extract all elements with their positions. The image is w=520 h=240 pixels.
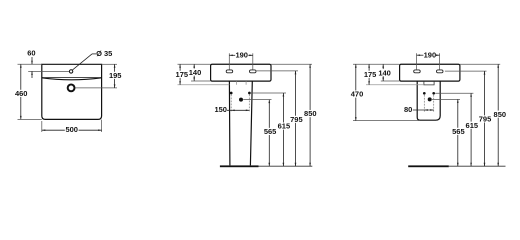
dimension 850 (middle) — [304, 64, 317, 166]
basin body front elevation — [211, 64, 271, 81]
svg-text:60: 60 — [27, 49, 35, 58]
extension line drain level right (middle) — [243, 99, 271, 101]
floor line thin (right view) — [449, 165, 506, 167]
extension line basin top right (middle) — [271, 63, 312, 65]
svg-text:615: 615 — [466, 121, 479, 130]
svg-text:470: 470 — [351, 90, 364, 99]
dimension 190 (middle) — [229, 50, 253, 59]
hidden trap outline — [236, 81, 246, 84]
svg-text:Ø 35: Ø 35 — [96, 49, 112, 58]
fixing hole right — [248, 92, 251, 95]
extension line basin top left (right view) — [353, 63, 400, 65]
tap hole left (elevation) — [226, 70, 233, 73]
fixing hole right (right view) — [432, 92, 435, 95]
dimension 615 (right) — [466, 93, 479, 166]
extension line 175 level (middle) — [178, 84, 230, 86]
svg-text:150: 150 — [214, 105, 227, 114]
extension line 175 level (right view) — [366, 84, 424, 86]
pedestal — [229, 81, 252, 165]
extension line tap level right (middle) — [256, 70, 299, 72]
fixing hole left — [230, 92, 233, 95]
extension line drain level right (right view) — [432, 98, 460, 100]
svg-text:500: 500 — [65, 125, 78, 134]
dimension 175 (middle) — [176, 64, 189, 84]
basin front rim curve — [42, 78, 102, 80]
dimension 80 — [404, 105, 434, 114]
extension line basin top right (right view) — [460, 63, 500, 65]
drain hole (elevation) — [239, 98, 243, 102]
svg-text:80: 80 — [404, 105, 412, 114]
semi-pedestal — [417, 81, 440, 120]
dimension 150 — [214, 105, 249, 114]
floor bar (right view) — [408, 165, 449, 167]
dimension label Ø 35 with leader — [72, 49, 112, 70]
extension line 190 left — [228, 53, 230, 69]
svg-text:565: 565 — [264, 127, 277, 136]
fixing hole left (right view) — [423, 92, 426, 95]
extension line fixing hole level right (middle) — [251, 92, 286, 94]
dimension 175 (right) — [364, 64, 377, 85]
svg-text:795: 795 — [479, 115, 492, 124]
dimension 195 — [109, 64, 122, 88]
extension line basin top right — [102, 63, 117, 65]
dimension 615 (middle) — [278, 93, 291, 166]
tap hole left (right view) — [414, 70, 421, 73]
svg-text:175: 175 — [176, 70, 189, 79]
dimension 470 — [351, 64, 364, 120]
svg-text:460: 460 — [15, 89, 28, 98]
svg-text:190: 190 — [424, 50, 437, 59]
svg-text:140: 140 — [378, 68, 391, 77]
extension line 190 right — [252, 53, 254, 69]
dimension 795 (middle) — [290, 71, 303, 166]
extension line 190 right (right view) — [439, 53, 441, 70]
basin outline plan view — [42, 64, 102, 119]
extension line basin bottom-right corner down — [101, 120, 103, 132]
dimension 140 (middle) — [189, 64, 202, 81]
dimension 60 — [27, 49, 35, 78]
svg-text:195: 195 — [109, 71, 122, 80]
tap hole right (elevation) — [250, 70, 257, 73]
dimension 565 (middle) — [264, 100, 277, 167]
dimension 850 (right) — [494, 64, 507, 166]
svg-text:565: 565 — [452, 127, 465, 136]
extension line basin bottom left (middle) — [191, 80, 211, 82]
drain hole — [68, 85, 75, 92]
extension line basin top left (middle) — [178, 63, 211, 65]
tap hole right (right view) — [437, 70, 444, 73]
extension line semiped bottom (right view) — [353, 120, 419, 122]
drain hole (right view) — [428, 97, 432, 101]
dimension 500 — [42, 125, 102, 134]
svg-text:795: 795 — [290, 115, 303, 124]
dashed extension from fixing holes (middle) — [231, 95, 249, 113]
extension line tap hole level — [28, 70, 69, 72]
dimension 140 (right) — [378, 64, 391, 81]
floor bar — [220, 165, 259, 167]
dimension 565 (right) — [452, 99, 465, 166]
basin body (right view) — [400, 64, 460, 81]
extension line basin bottom left — [18, 118, 42, 120]
extension line drain level — [75, 87, 117, 89]
svg-text:850: 850 — [494, 110, 507, 119]
extension line basin top left — [18, 63, 42, 65]
extension line basin bottom-left corner down — [41, 121, 43, 132]
extension line 190 left (right view) — [416, 53, 418, 70]
dimension 460 — [15, 64, 28, 119]
tap hole — [69, 70, 72, 73]
dashed extension from fixing holes (right view) — [424, 95, 433, 113]
extension line tap level right (right view) — [445, 70, 487, 72]
dimension 190 (right view) — [417, 50, 440, 59]
dimension 795 (right) — [479, 71, 492, 166]
svg-text:615: 615 — [278, 122, 291, 131]
svg-text:850: 850 — [304, 109, 317, 118]
trap outline (right view) — [424, 81, 434, 85]
svg-text:175: 175 — [364, 70, 377, 79]
basin inner shelf line — [42, 77, 102, 79]
svg-text:140: 140 — [189, 68, 202, 77]
extension line basin bottom left (right view) — [381, 80, 400, 82]
floor line thin — [259, 165, 313, 167]
extension line fixing hole level right (right view) — [435, 92, 473, 94]
svg-text:190: 190 — [235, 50, 248, 59]
